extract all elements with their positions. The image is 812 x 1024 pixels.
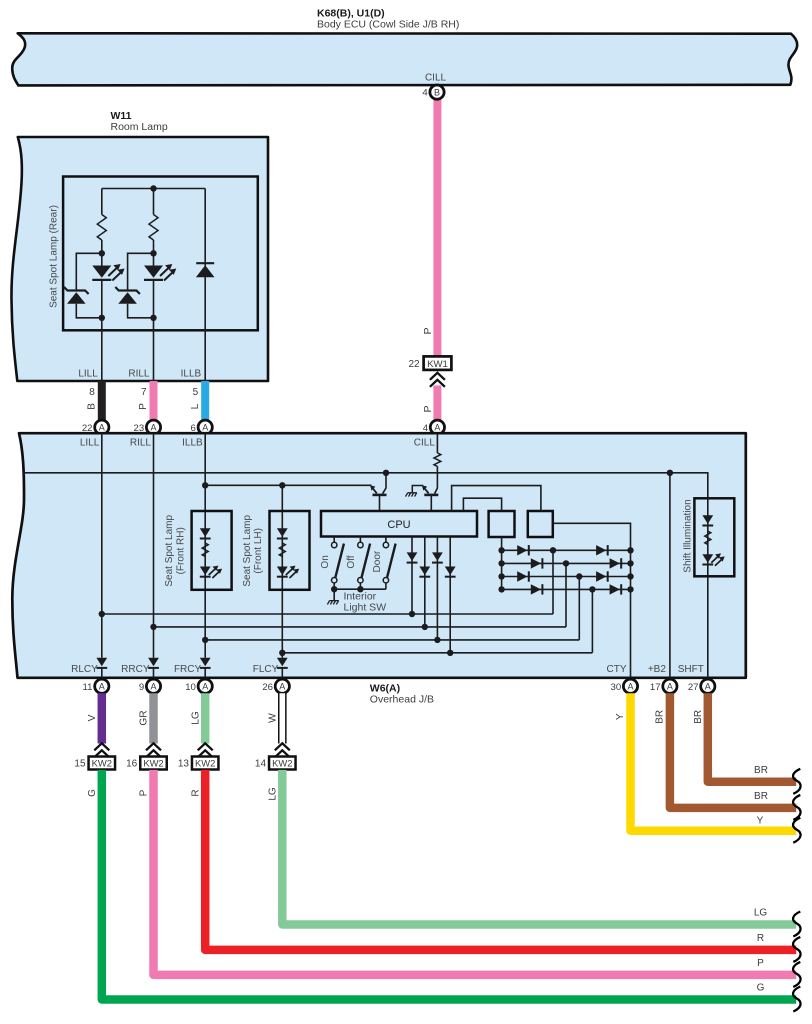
svg-text:30: 30 — [611, 682, 622, 693]
svg-text:A: A — [99, 682, 105, 692]
svg-text:G: G — [757, 983, 765, 994]
svg-text:KW1: KW1 — [427, 359, 448, 370]
svg-text:ILLB: ILLB — [181, 368, 202, 379]
svg-text:Light SW: Light SW — [344, 602, 387, 614]
svg-text:RILL: RILL — [130, 438, 152, 449]
svg-text:L: L — [190, 403, 201, 409]
svg-text:A: A — [705, 682, 711, 692]
svg-text:On: On — [320, 555, 331, 568]
svg-text:Door: Door — [372, 550, 383, 572]
svg-text:G: G — [87, 789, 98, 797]
svg-text:FLCY: FLCY — [253, 664, 279, 675]
svg-text:9: 9 — [139, 682, 144, 693]
svg-text:Seat Spot Lamp (Rear): Seat Spot Lamp (Rear) — [49, 205, 60, 308]
svg-text:BR: BR — [754, 791, 768, 802]
svg-text:RRCY: RRCY — [121, 664, 150, 675]
svg-text:LG: LG — [267, 787, 278, 801]
svg-text:14: 14 — [255, 759, 267, 770]
svg-text:P: P — [757, 958, 764, 969]
svg-text:(Front LH): (Front LH) — [253, 528, 264, 574]
svg-text:ILLB: ILLB — [182, 438, 203, 449]
svg-text:13: 13 — [178, 759, 190, 770]
svg-text:FRCY: FRCY — [174, 664, 202, 675]
svg-text:Seat Spot Lamp: Seat Spot Lamp — [242, 515, 253, 587]
svg-text:P: P — [138, 403, 149, 410]
svg-text:SHFT: SHFT — [678, 664, 704, 675]
svg-text:LILL: LILL — [80, 438, 100, 449]
svg-text:KW2: KW2 — [272, 757, 292, 768]
svg-text:P: P — [139, 789, 150, 796]
svg-text:A: A — [150, 682, 156, 692]
svg-text:CILL: CILL — [425, 73, 447, 84]
svg-text:V: V — [87, 714, 98, 721]
svg-text:10: 10 — [185, 682, 196, 693]
svg-text:P: P — [422, 405, 434, 412]
svg-text:LG: LG — [754, 908, 768, 919]
svg-text:Off: Off — [346, 555, 357, 568]
svg-text:LG: LG — [190, 711, 201, 725]
svg-text:15: 15 — [74, 759, 86, 770]
svg-text:11: 11 — [83, 682, 93, 693]
svg-text:B: B — [434, 87, 440, 97]
svg-text:4: 4 — [422, 88, 428, 99]
svg-text:A: A — [667, 682, 673, 692]
svg-text:5: 5 — [193, 387, 199, 398]
svg-text:W: W — [267, 713, 278, 723]
svg-text:Body ECU (Cowl Side J/B RH): Body ECU (Cowl Side J/B RH) — [317, 19, 459, 31]
svg-text:A: A — [150, 423, 156, 433]
svg-text:B: B — [86, 403, 97, 410]
svg-text:A: A — [202, 423, 208, 433]
svg-text:Shift Illumination: Shift Illumination — [682, 499, 693, 572]
svg-text:22: 22 — [408, 359, 420, 370]
svg-text:Room Lamp: Room Lamp — [111, 121, 168, 133]
svg-text:LILL: LILL — [78, 368, 98, 379]
svg-text:17: 17 — [650, 682, 661, 693]
svg-text:7: 7 — [141, 387, 147, 398]
svg-text:KW2: KW2 — [143, 757, 163, 768]
svg-text:Seat Spot Lamp: Seat Spot Lamp — [164, 515, 175, 587]
svg-text:RLCY: RLCY — [71, 664, 98, 675]
svg-text:R: R — [757, 933, 764, 944]
svg-text:BR: BR — [754, 765, 768, 776]
svg-text:CPU: CPU — [387, 519, 410, 531]
svg-text:A: A — [434, 423, 440, 433]
svg-text:A: A — [99, 423, 105, 433]
svg-text:KW2: KW2 — [195, 757, 215, 768]
svg-text:8: 8 — [89, 387, 95, 398]
svg-text:BR: BR — [693, 710, 704, 724]
svg-text:RILL: RILL — [128, 368, 150, 379]
svg-text:16: 16 — [126, 759, 138, 770]
svg-text:27: 27 — [688, 682, 699, 693]
svg-text:(Front RH): (Front RH) — [175, 527, 186, 574]
svg-text:Y: Y — [757, 815, 764, 826]
svg-text:CILL: CILL — [414, 438, 436, 449]
svg-text:+B2: +B2 — [648, 664, 667, 675]
svg-text:Overhead J/B: Overhead J/B — [370, 693, 434, 705]
svg-text:A: A — [202, 682, 208, 692]
svg-text:A: A — [627, 682, 633, 692]
svg-text:KW2: KW2 — [92, 757, 112, 768]
svg-text:GR: GR — [139, 710, 150, 725]
svg-text:BR: BR — [654, 710, 665, 724]
svg-text:26: 26 — [262, 682, 273, 693]
svg-text:R: R — [190, 789, 201, 796]
svg-text:Y: Y — [615, 713, 626, 720]
svg-text:A: A — [279, 682, 285, 692]
svg-text:P: P — [422, 327, 434, 334]
svg-text:CTY: CTY — [607, 664, 627, 675]
